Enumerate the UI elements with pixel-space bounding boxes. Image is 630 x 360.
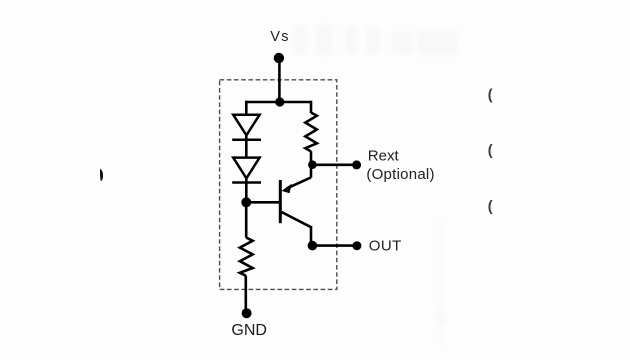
svg-text:OUT: OUT — [369, 238, 402, 255]
svg-text:V: V — [270, 29, 280, 45]
svg-text:Rext: Rext — [368, 147, 400, 164]
svg-text:GND: GND — [231, 322, 267, 339]
svg-text:(: ( — [488, 88, 493, 104]
svg-text:(Optional): (Optional) — [366, 166, 434, 183]
svg-text:(: ( — [488, 143, 493, 159]
svg-text:(: ( — [488, 199, 493, 215]
svg-text:s: s — [281, 29, 288, 45]
